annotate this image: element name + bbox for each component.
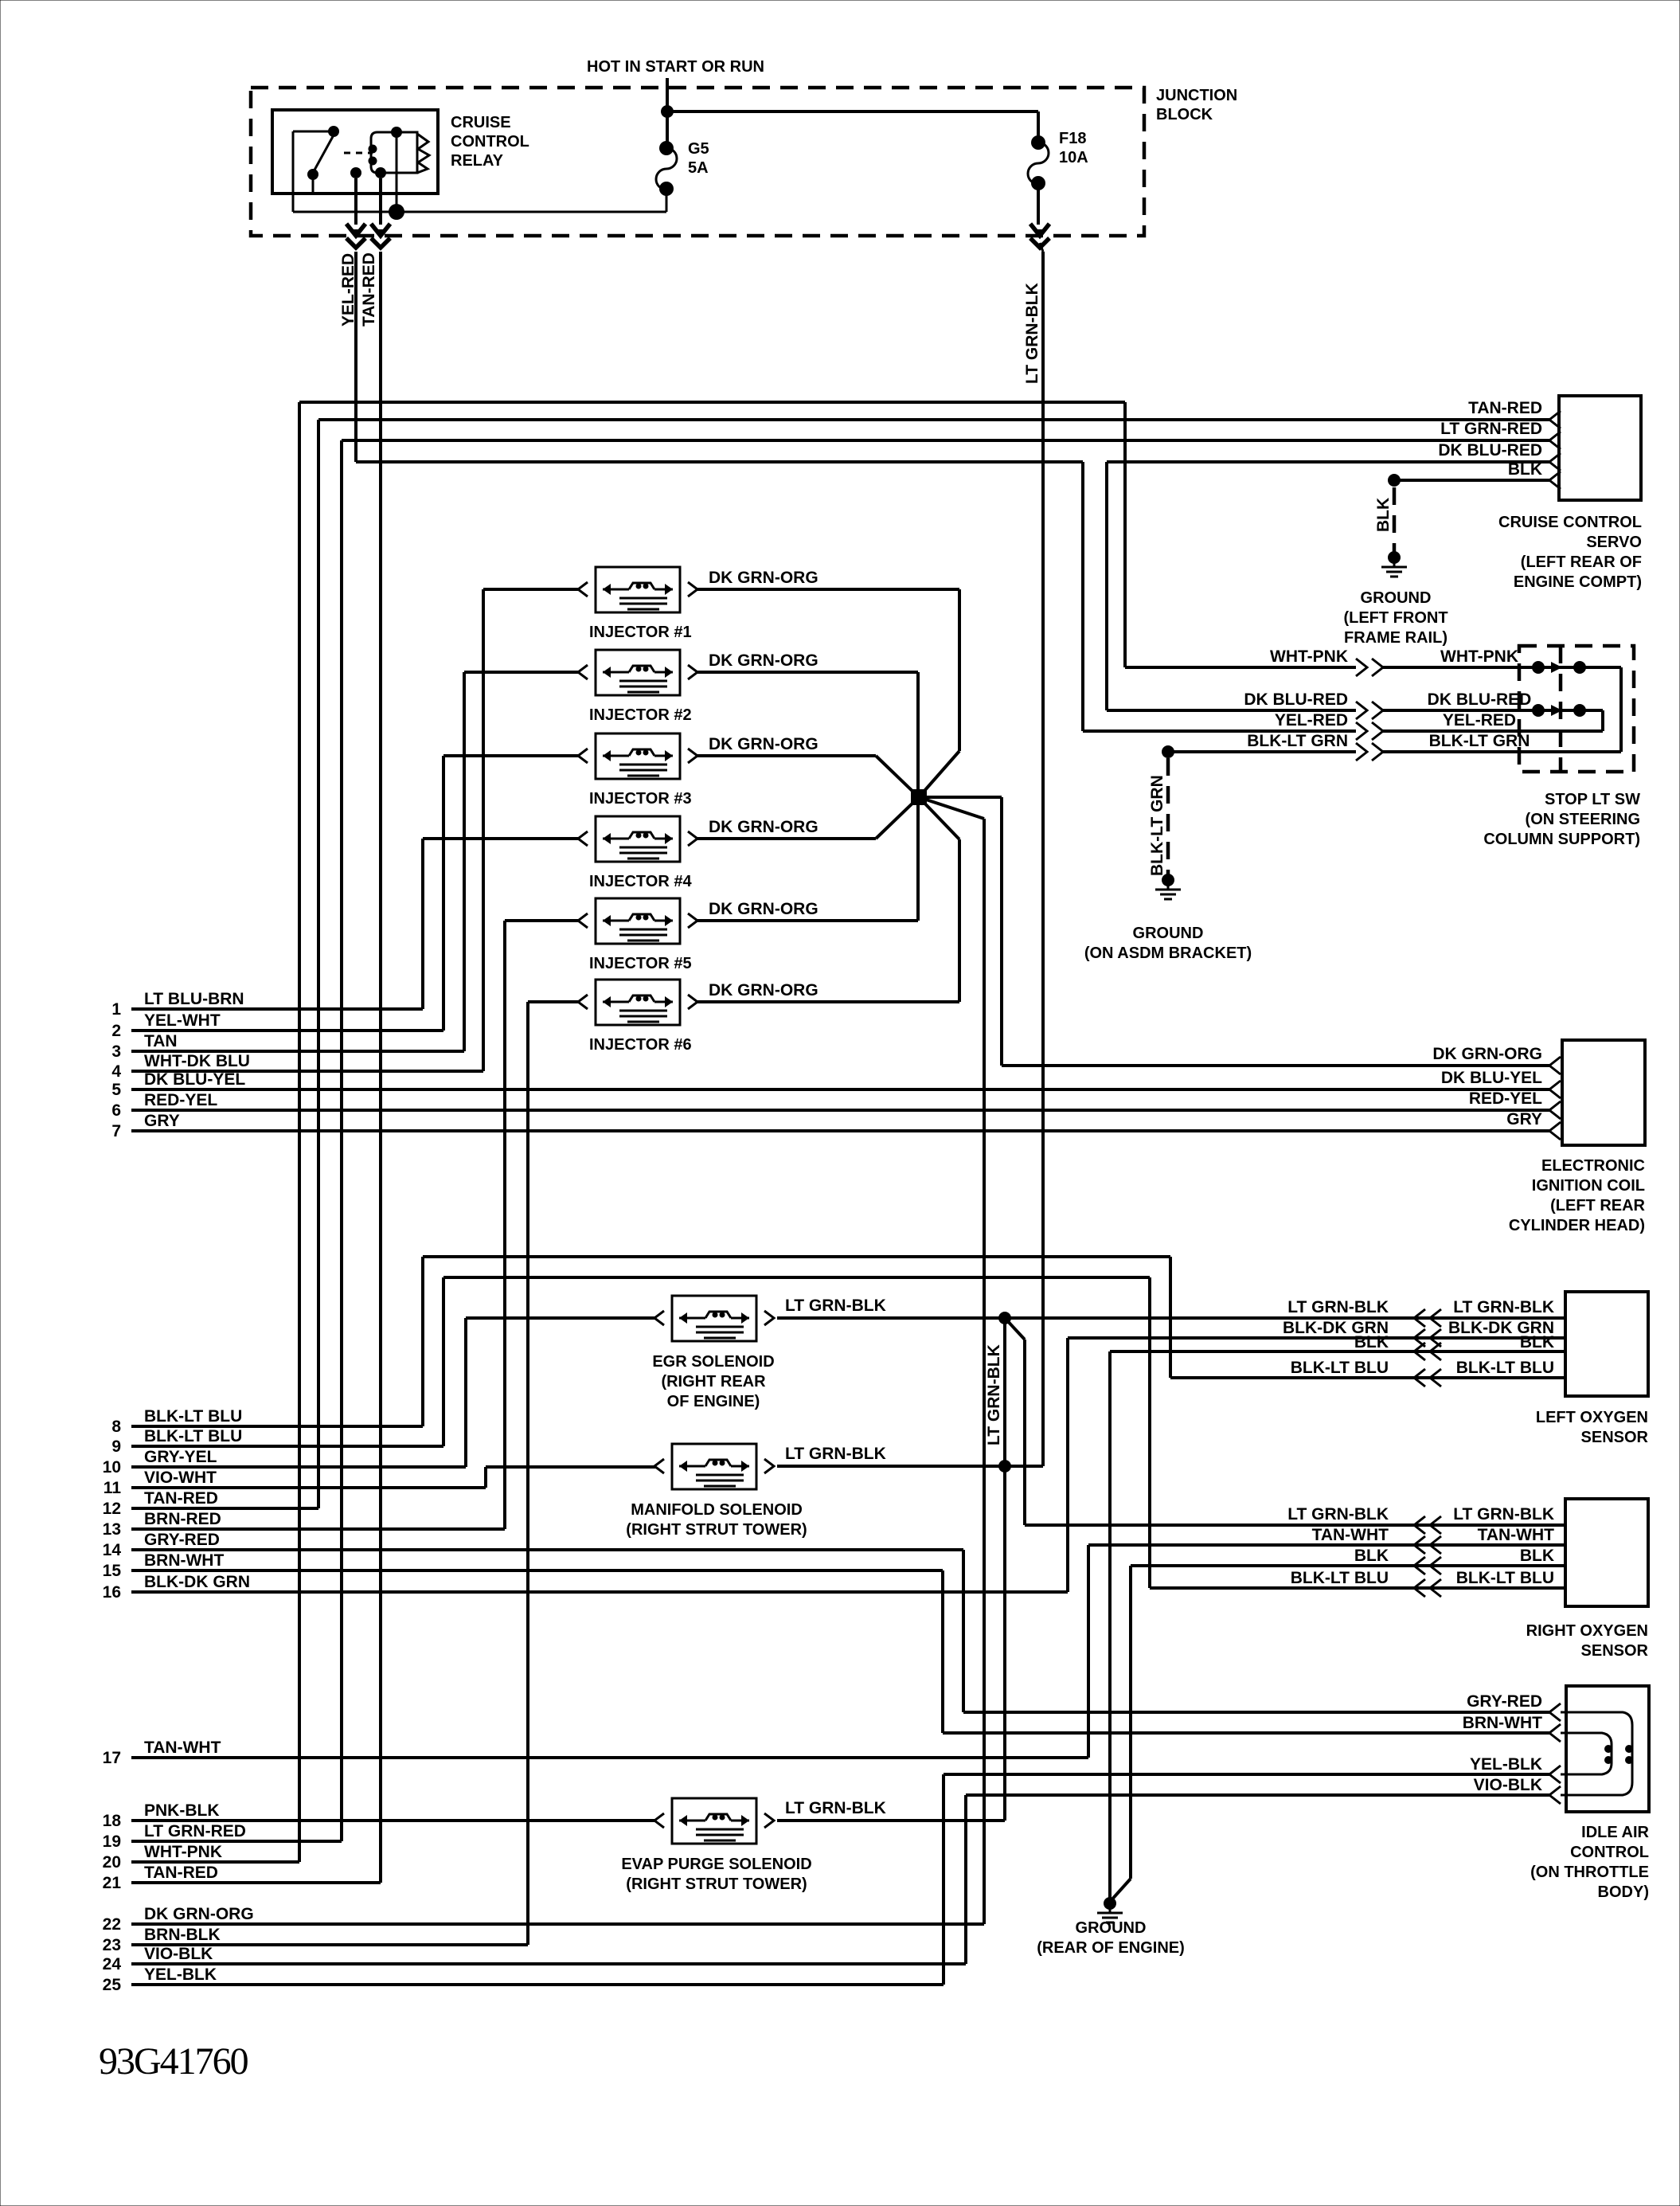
svg-text:INJECTOR #4: INJECTOR #4 [589,873,692,890]
svg-text:MANIFOLD SOLENOID: MANIFOLD SOLENOID [631,1501,803,1519]
svg-text:WHT-PNK: WHT-PNK [1270,647,1348,666]
svg-text:BLK-DK GRN: BLK-DK GRN [144,1573,250,1591]
svg-text:LT GRN-BLK: LT GRN-BLK [985,1344,1003,1445]
svg-text:21: 21 [103,1874,122,1892]
svg-text:TAN-WHT: TAN-WHT [144,1739,221,1757]
svg-text:(REAR OF ENGINE): (REAR OF ENGINE) [1037,1939,1185,1957]
svg-text:1: 1 [111,1000,121,1019]
svg-text:BLK-LT GRN: BLK-LT GRN [1247,732,1348,750]
svg-text:BLK: BLK [1508,460,1542,479]
svg-text:GRY: GRY [1506,1110,1542,1128]
svg-text:EGR SOLENOID: EGR SOLENOID [652,1353,774,1371]
svg-text:DK BLU-YEL: DK BLU-YEL [144,1070,245,1089]
svg-text:DK GRN-ORG: DK GRN-ORG [709,651,819,670]
svg-text:5: 5 [111,1081,121,1099]
svg-text:COLUMN SUPPORT): COLUMN SUPPORT) [1483,831,1640,848]
svg-text:BODY): BODY) [1598,1883,1649,1901]
svg-text:BLK: BLK [1374,498,1393,532]
svg-text:BLK-LT BLU: BLK-LT BLU [1456,1359,1554,1377]
svg-text:DK GRN-ORG: DK GRN-ORG [709,981,819,999]
svg-text:DK GRN-ORG: DK GRN-ORG [709,900,819,918]
svg-text:13: 13 [103,1520,121,1539]
svg-text:(ON ASDM BRACKET): (ON ASDM BRACKET) [1084,945,1252,962]
svg-text:BLK: BLK [1354,1547,1389,1565]
svg-text:10A: 10A [1059,149,1088,166]
svg-text:93G41760: 93G41760 [99,2040,248,2083]
svg-text:LT GRN-BLK: LT GRN-BLK [1287,1505,1389,1523]
svg-text:EVAP PURGE SOLENOID: EVAP PURGE SOLENOID [621,1856,811,1873]
svg-text:LT GRN-RED: LT GRN-RED [1440,420,1542,438]
svg-text:TAN-RED: TAN-RED [360,252,378,327]
svg-text:GRY-RED: GRY-RED [1467,1692,1542,1711]
svg-text:YEL-RED: YEL-RED [1443,711,1516,729]
svg-text:(ON STEERING: (ON STEERING [1526,811,1640,828]
svg-text:BLK-LT BLU: BLK-LT BLU [144,1427,242,1445]
svg-text:(LEFT REAR OF: (LEFT REAR OF [1521,553,1642,571]
svg-text:RED-YEL: RED-YEL [1469,1089,1542,1108]
svg-text:WHT-DK BLU: WHT-DK BLU [144,1052,250,1070]
svg-text:TAN-RED: TAN-RED [1468,399,1542,417]
svg-text:DK GRN-ORG: DK GRN-ORG [144,1905,254,1923]
svg-text:DK BLU-RED: DK BLU-RED [1438,441,1542,460]
svg-text:YEL-RED: YEL-RED [1275,711,1348,729]
svg-text:DK BLU-RED: DK BLU-RED [1428,690,1532,709]
svg-text:CYLINDER HEAD): CYLINDER HEAD) [1509,1217,1645,1234]
svg-text:LT GRN-BLK: LT GRN-BLK [1023,283,1041,384]
svg-text:SERVO: SERVO [1586,534,1642,551]
svg-text:16: 16 [103,1583,121,1602]
svg-text:BLK-LT BLU: BLK-LT BLU [1456,1569,1554,1587]
svg-text:LT GRN-BLK: LT GRN-BLK [1287,1298,1389,1316]
svg-text:(RIGHT REAR: (RIGHT REAR [661,1373,766,1390]
svg-text:PNK-BLK: PNK-BLK [144,1801,220,1820]
svg-text:CRUISE: CRUISE [451,114,511,131]
svg-text:JUNCTION: JUNCTION [1156,87,1237,104]
svg-text:10: 10 [103,1458,121,1477]
svg-text:INJECTOR #3: INJECTOR #3 [589,790,692,808]
svg-text:F18: F18 [1059,130,1086,147]
svg-text:IGNITION COIL: IGNITION COIL [1532,1177,1645,1195]
svg-text:WHT-PNK: WHT-PNK [144,1843,222,1861]
svg-text:INJECTOR #1: INJECTOR #1 [589,624,692,641]
svg-text:BLK: BLK [1520,1547,1554,1565]
svg-text:2: 2 [111,1022,121,1040]
svg-text:BLK: BLK [1354,1333,1389,1351]
svg-text:GRY-RED: GRY-RED [144,1531,220,1549]
svg-text:LT GRN-BLK: LT GRN-BLK [785,1445,886,1463]
svg-text:BRN-RED: BRN-RED [144,1510,221,1528]
svg-text:4: 4 [111,1062,121,1081]
svg-text:DK GRN-ORG: DK GRN-ORG [1432,1045,1542,1063]
svg-text:19: 19 [103,1832,121,1851]
svg-text:LT GRN-BLK: LT GRN-BLK [1453,1505,1554,1523]
svg-text:GROUND: GROUND [1076,1919,1147,1937]
svg-text:23: 23 [103,1936,121,1954]
svg-text:BRN-WHT: BRN-WHT [1463,1714,1542,1732]
svg-text:VIO-BLK: VIO-BLK [144,1945,213,1963]
svg-text:DK BLU-YEL: DK BLU-YEL [1441,1069,1542,1087]
svg-text:RED-YEL: RED-YEL [144,1091,217,1109]
svg-text:BLK-LT BLU: BLK-LT BLU [144,1407,242,1426]
svg-text:(ON THROTTLE: (ON THROTTLE [1530,1864,1649,1881]
svg-text:GRY: GRY [144,1112,180,1130]
svg-text:LEFT OXYGEN: LEFT OXYGEN [1536,1409,1648,1426]
svg-text:17: 17 [103,1749,121,1767]
svg-text:OF ENGINE): OF ENGINE) [667,1393,760,1410]
svg-text:RIGHT OXYGEN: RIGHT OXYGEN [1526,1622,1648,1640]
svg-text:TAN-WHT: TAN-WHT [1478,1526,1555,1544]
svg-text:GRY-YEL: GRY-YEL [144,1448,217,1466]
svg-text:TAN: TAN [144,1032,178,1050]
svg-text:YEL-WHT: YEL-WHT [144,1011,221,1030]
svg-text:(LEFT FRONT: (LEFT FRONT [1343,609,1448,627]
svg-text:INJECTOR #2: INJECTOR #2 [589,706,692,724]
svg-text:25: 25 [103,1976,122,1994]
svg-text:SENSOR: SENSOR [1581,1429,1649,1446]
svg-text:11: 11 [104,1479,122,1497]
svg-text:TAN-WHT: TAN-WHT [1312,1526,1389,1544]
svg-text:18: 18 [103,1812,122,1830]
svg-text:BLK-LT GRN: BLK-LT GRN [1148,775,1166,876]
svg-text:LT GRN-BLK: LT GRN-BLK [785,1297,886,1315]
svg-text:CRUISE CONTROL: CRUISE CONTROL [1498,514,1642,531]
svg-text:DK GRN-ORG: DK GRN-ORG [709,735,819,753]
svg-text:FRAME RAIL): FRAME RAIL) [1344,629,1448,647]
svg-text:TAN-RED: TAN-RED [144,1864,218,1882]
svg-text:BLK-LT BLU: BLK-LT BLU [1291,1569,1389,1587]
svg-text:12: 12 [103,1500,121,1518]
svg-text:LT BLU-BRN: LT BLU-BRN [144,990,244,1008]
svg-text:IDLE AIR: IDLE AIR [1581,1824,1649,1841]
svg-text:YEL-BLK: YEL-BLK [1470,1755,1542,1774]
svg-text:YEL-RED: YEL-RED [339,253,357,327]
svg-text:20: 20 [103,1853,121,1872]
svg-text:YEL-BLK: YEL-BLK [144,1965,217,1984]
svg-text:INJECTOR #6: INJECTOR #6 [589,1036,692,1054]
svg-text:(LEFT REAR: (LEFT REAR [1550,1197,1645,1214]
svg-text:5A: 5A [688,159,709,177]
svg-text:(RIGHT STRUT TOWER): (RIGHT STRUT TOWER) [626,1875,807,1893]
svg-text:24: 24 [103,1955,122,1973]
svg-text:BLK-LT BLU: BLK-LT BLU [1291,1359,1389,1377]
svg-text:CONTROL: CONTROL [1570,1844,1649,1861]
svg-text:15: 15 [103,1562,122,1580]
svg-text:SENSOR: SENSOR [1581,1642,1649,1660]
svg-text:VIO-BLK: VIO-BLK [1474,1776,1542,1794]
svg-text:BLK: BLK [1520,1333,1554,1351]
svg-text:9: 9 [111,1437,121,1456]
svg-text:GROUND: GROUND [1133,925,1204,942]
svg-text:3: 3 [111,1042,121,1061]
svg-text:RELAY: RELAY [451,152,504,170]
svg-text:8: 8 [111,1418,121,1436]
svg-text:VIO-WHT: VIO-WHT [144,1469,217,1487]
svg-text:ENGINE COMPT): ENGINE COMPT) [1514,573,1642,591]
svg-text:DK BLU-RED: DK BLU-RED [1244,690,1348,709]
svg-text:INJECTOR #5: INJECTOR #5 [589,955,692,972]
svg-text:GROUND: GROUND [1361,589,1432,607]
svg-text:6: 6 [111,1101,121,1120]
svg-text:DK GRN-ORG: DK GRN-ORG [709,818,819,836]
svg-text:LT GRN-RED: LT GRN-RED [144,1822,246,1840]
svg-text:ELECTRONIC: ELECTRONIC [1541,1157,1645,1175]
svg-text:BLOCK: BLOCK [1156,106,1213,123]
svg-text:BRN-WHT: BRN-WHT [144,1551,224,1570]
svg-text:WHT-PNK: WHT-PNK [1440,647,1518,666]
svg-text:14: 14 [103,1541,122,1559]
svg-text:HOT IN START OR RUN: HOT IN START OR RUN [587,58,764,76]
svg-text:LT GRN-BLK: LT GRN-BLK [785,1799,886,1817]
svg-text:22: 22 [103,1915,121,1934]
svg-text:(RIGHT STRUT TOWER): (RIGHT STRUT TOWER) [626,1521,807,1539]
svg-text:BRN-BLK: BRN-BLK [144,1926,221,1944]
svg-text:TAN-RED: TAN-RED [144,1489,218,1508]
svg-text:LT GRN-BLK: LT GRN-BLK [1453,1298,1554,1316]
svg-text:STOP LT SW: STOP LT SW [1545,791,1640,808]
svg-text:G5: G5 [688,140,709,158]
svg-text:7: 7 [111,1122,121,1140]
svg-text:BLK-LT GRN: BLK-LT GRN [1429,732,1530,750]
svg-text:CONTROL: CONTROL [451,133,529,151]
svg-text:DK GRN-ORG: DK GRN-ORG [709,569,819,587]
